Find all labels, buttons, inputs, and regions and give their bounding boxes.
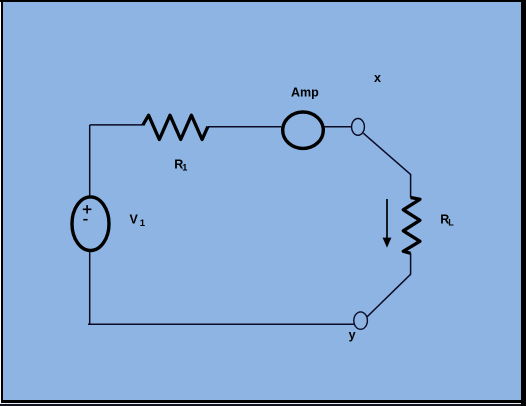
svg-text:1: 1 bbox=[182, 163, 188, 174]
svg-text:V: V bbox=[130, 213, 139, 227]
svg-text:1: 1 bbox=[140, 218, 146, 229]
svg-text:x: x bbox=[374, 71, 381, 85]
svg-text:y: y bbox=[349, 328, 356, 342]
svg-text:L: L bbox=[448, 217, 454, 227]
svg-text:Amp: Amp bbox=[291, 85, 319, 99]
